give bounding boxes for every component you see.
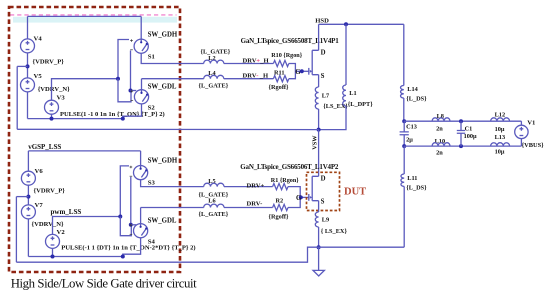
wire C13 top stub [403, 121, 405, 132]
cyan highlight band [13, 17, 177, 23]
svg-text:{L_GATE}: {L_GATE} [199, 211, 229, 218]
wire bus- to L11 [403, 146, 405, 174]
wire DRV+ from S3 [141, 180, 204, 187]
resistor R2 [273, 204, 288, 210]
svg-text:DUT: DUT [344, 186, 366, 197]
junction VSW [317, 128, 321, 132]
wire to gate Q2 [300, 196, 309, 198]
junction HSD [344, 22, 348, 26]
wire to S4 ctrl+ [131, 224, 136, 226]
switch S2 SW_GDL [134, 90, 148, 104]
junction S3-/S4+ control [129, 223, 133, 227]
svg-text:2μ: 2μ [406, 136, 413, 143]
inductor L13 [491, 143, 510, 146]
wire C1 top stub [460, 121, 462, 130]
inductor L10 [432, 143, 450, 146]
wire Q2 source to L9 [318, 201, 320, 212]
svg-text:{LS_EX}: {LS_EX} [323, 103, 348, 110]
junction V3- on return net [50, 117, 54, 121]
svg-text:D: D [321, 175, 326, 182]
wire VSW down to DUT drain [318, 130, 320, 173]
svg-text:C13: C13 [406, 124, 417, 131]
junction bus+ at C13 [402, 119, 406, 123]
inductor L14 [400, 86, 403, 99]
inductor L7 [315, 87, 318, 109]
svg-text:R1 {Rgon}: R1 {Rgon} [271, 178, 299, 184]
svg-text:L9: L9 [322, 216, 329, 223]
wire Q1 source to L7 [318, 75, 320, 87]
svg-text:{VBUS}: {VBUS} [522, 142, 545, 149]
junction V2- on return net [51, 255, 55, 259]
wire C1 bottom stub [460, 133, 462, 146]
pulse source V2 [46, 234, 60, 248]
svg-text:SW_GDL: SW_GDL [148, 84, 177, 91]
wire V5- down [27, 92, 29, 119]
wire S3 ctrl+ down [120, 166, 129, 217]
voltage source V7 [21, 205, 35, 219]
wire V6- to V7+ [27, 185, 29, 205]
wire V2- lead [52, 248, 54, 256]
svg-text:{VDRV_P}: {VDRV_P} [33, 58, 65, 65]
junction S4 return [121, 255, 125, 259]
ground symbol [313, 247, 324, 276]
wire branch to left rail [17, 65, 27, 67]
capacitor C1 [457, 131, 465, 134]
svg-text:V6: V6 [35, 168, 44, 175]
inductor L1 [343, 85, 346, 106]
wire to S2 ctrl+ [131, 90, 137, 92]
wire S1 top lead [140, 16, 142, 39]
resistor R10 [273, 60, 288, 66]
wire V3- lead [51, 114, 53, 118]
wire S1 ctrl- chain [130, 51, 132, 91]
svg-text:DRV: DRV [243, 57, 257, 64]
svg-text:{L_GATE}: {L_GATE} [199, 83, 229, 90]
resistor R1 [273, 184, 288, 190]
svg-text:HSD: HSD [315, 17, 329, 24]
wire L11 to ground node [403, 186, 405, 247]
wire S4 top lead [140, 208, 142, 224]
svg-text:{Rgoff}: {Rgoff} [269, 84, 290, 91]
inductor L11 [401, 174, 404, 186]
wire L1 to VSW node [319, 106, 346, 130]
wire Q1 drain to HSD [318, 24, 320, 50]
svg-text:DRV+: DRV+ [247, 183, 265, 190]
wire HSD to L1 [345, 24, 347, 85]
svg-text:{Rgoff}: {Rgoff} [269, 214, 290, 221]
svg-text:GaN_LTspice_GS66506T_L1V4P2: GaN_LTspice_GS66506T_L1V4P2 [240, 163, 339, 171]
junction C1 bottom [459, 144, 463, 148]
wire source return rail low-side [16, 247, 318, 262]
wire to R10 [224, 63, 274, 65]
wire left rail high-side [16, 66, 18, 129]
svg-text:SW_GDH: SW_GDH [148, 157, 178, 164]
wire control return net high-side [28, 118, 123, 120]
svg-text:L6: L6 [208, 197, 215, 204]
svg-text:G: G [295, 69, 301, 76]
wire to R1 [224, 186, 273, 188]
outer dashed box: gate driver circuit [9, 7, 180, 272]
svg-text:SW_GDH: SW_GDH [148, 31, 178, 38]
junction V4-/V5+/rail [26, 64, 30, 68]
voltage source V5 [21, 78, 35, 92]
wire V4- to V5+ [27, 53, 29, 78]
wire left rail low-side [15, 197, 17, 263]
voltage source V4 [21, 39, 35, 53]
svg-text:S4: S4 [148, 238, 156, 245]
wire L14 to bus+ [403, 98, 405, 121]
wire vGSP_LSS rail [28, 150, 140, 152]
svg-text:10μ: 10μ [495, 126, 505, 133]
wire DRV+_H from S1 [141, 53, 204, 63]
svg-text:SW_GDL: SW_GDL [148, 217, 177, 224]
svg-text:V3: V3 [57, 95, 66, 102]
svg-text:V1: V1 [527, 120, 535, 127]
svg-text:R2: R2 [276, 197, 284, 204]
svg-text:C1: C1 [465, 125, 473, 132]
svg-text:PULSE(-1 1 {DT} 1n 1n {T_ON-2*: PULSE(-1 1 {DT} 1n 1n {T_ON-2*DT} {T_P} … [61, 245, 195, 252]
wire top bus rail [404, 120, 521, 122]
svg-text:L11: L11 [407, 175, 417, 182]
svg-text:VSW: VSW [311, 135, 318, 150]
switch S4 SW_GDL [134, 224, 148, 238]
junction S1-/S2+ control [129, 89, 133, 93]
wire S3 ctrl- chain [130, 177, 132, 225]
svg-text:L7: L7 [322, 92, 329, 99]
wire L7 to VSW node [318, 109, 320, 130]
wire V4 top lead [27, 16, 29, 39]
junction bus- at C13 [402, 144, 406, 148]
wire HSD to L14 [403, 24, 405, 85]
svg-text:DRV: DRV [243, 73, 257, 80]
svg-text:100μ: 100μ [464, 133, 477, 140]
svg-text:{VDRV_P}: {VDRV_P} [34, 188, 66, 195]
wire V6 top lead [27, 151, 29, 171]
wire R10/R11 join [289, 64, 296, 79]
junction pwm control node [118, 215, 122, 219]
junction control node [116, 77, 120, 81]
wire to R11 [224, 78, 274, 80]
wire S1 ctrl+ down [118, 40, 129, 79]
wire source return rail high-side [17, 128, 318, 130]
svg-text:{VDRV_N}: {VDRV_N} [32, 221, 64, 228]
wire DRV-_H from S2 [142, 78, 204, 80]
wire C13 bottom stub [403, 135, 405, 146]
junction S2 return [121, 117, 125, 121]
DUT dashed box [307, 172, 340, 210]
svg-text:pwm_LSS: pwm_LSS [51, 208, 82, 216]
svg-text:{L_DS}: {L_DS} [406, 95, 427, 102]
junction gate node high-side [300, 69, 304, 73]
junction V6-/V7+/rail [26, 195, 30, 199]
svg-text:GaN_LTspice_GS66508T_L1V4P1: GaN_LTspice_GS66508T_L1V4P1 [241, 37, 340, 45]
wire DRV- from S4 [141, 207, 204, 209]
wire R1/R2 join [288, 187, 300, 208]
inductor L5 [204, 183, 224, 186]
wire S2 top lead [141, 79, 143, 90]
wire V3+ to S1 control [52, 79, 119, 101]
inductor L12 [491, 118, 510, 121]
wire ground node to L11 bottom [319, 246, 405, 248]
inductor L2 [204, 60, 224, 63]
svg-text:V5: V5 [34, 73, 43, 80]
wire V1 bottom lead [520, 139, 522, 147]
svg-text:{ LS_EX}: { LS_EX} [321, 228, 348, 235]
svg-text:PULSE(1 -1 0 1n 1n {T_ON} {T_P: PULSE(1 -1 0 1n 1n {T_ON} {T_P} 2) [60, 111, 165, 118]
wire HSD rail [319, 23, 404, 25]
svg-text:S1: S1 [148, 54, 155, 61]
wire to gate Q1 [295, 70, 308, 72]
svg-text:V7: V7 [35, 202, 44, 209]
wire S2 bottom to return [123, 104, 142, 119]
svg-text:{L_DS}: {L_DS} [406, 185, 427, 192]
junction C1 top [459, 119, 463, 123]
wire S4 bottom to return [123, 238, 141, 257]
transistor Q1 GS66508T [309, 50, 319, 74]
svg-text:L13: L13 [495, 134, 506, 141]
wire S3 top lead [140, 151, 142, 166]
svg-text:V2: V2 [57, 229, 66, 236]
magenta dashed selection line [10, 14, 177, 16]
transistor Q2 GS66506T DUT [309, 176, 319, 201]
svg-text:S: S [321, 199, 325, 206]
svg-text:S: S [321, 73, 325, 80]
switch S1 SW_GDH [134, 39, 148, 53]
wire L9 to ground node [318, 227, 320, 247]
junction gate node low-side [299, 195, 303, 199]
wire to R2 [224, 207, 273, 209]
wire control hook to S2 [118, 79, 131, 102]
wire V1 top lead [520, 121, 522, 125]
svg-text:10μ: 10μ [495, 148, 505, 155]
voltage source V1 [515, 125, 528, 138]
svg-text:High Side/Low Side Gate driver: High Side/Low Side Gate driver circuit [11, 276, 197, 290]
svg-text:D: D [321, 49, 326, 56]
wire control hook to S4 [120, 217, 131, 236]
wire control return net low-side [28, 256, 122, 258]
svg-text:{L_DPT}: {L_DPT} [348, 101, 373, 108]
svg-text:-: - [256, 73, 258, 80]
pulse source V3 [45, 100, 59, 114]
svg-text:vGSP_LSS: vGSP_LSS [28, 143, 61, 151]
svg-text:2n: 2n [436, 126, 443, 133]
svg-text:V4: V4 [34, 36, 43, 43]
voltage source V6 [21, 171, 35, 185]
svg-text:G: G [296, 195, 302, 202]
svg-text:S2: S2 [148, 104, 156, 111]
svg-text:DRV-: DRV- [247, 201, 263, 208]
wire V7- down [27, 219, 29, 257]
inductor L8 [432, 118, 450, 121]
inductor L4 [204, 75, 224, 78]
wire top rail high-side [28, 15, 142, 17]
capacitor C13 [400, 132, 409, 135]
inductor L9 [315, 212, 318, 227]
junction ground node [317, 245, 321, 249]
inductor L6 [204, 204, 224, 207]
wire bottom bus rail [404, 145, 521, 147]
wire V2+ pwm_LSS to S3 control [53, 217, 121, 235]
svg-text:{VDRV_N}: {VDRV_N} [38, 86, 70, 93]
switch S3 SW_GDH [134, 166, 148, 180]
svg-text:2n: 2n [436, 150, 443, 157]
resistor R11 [273, 76, 288, 82]
svg-text:_H: _H [259, 73, 269, 80]
svg-text:L1: L1 [349, 90, 356, 97]
wire branch to left rail low-side [16, 196, 28, 198]
wire DUT drain stub [318, 172, 320, 176]
svg-text:R10 {Rgon}: R10 {Rgon} [271, 53, 303, 59]
svg-text:L14: L14 [407, 86, 418, 93]
svg-text:S3: S3 [148, 179, 156, 186]
svg-text:_H: _H [259, 57, 269, 64]
